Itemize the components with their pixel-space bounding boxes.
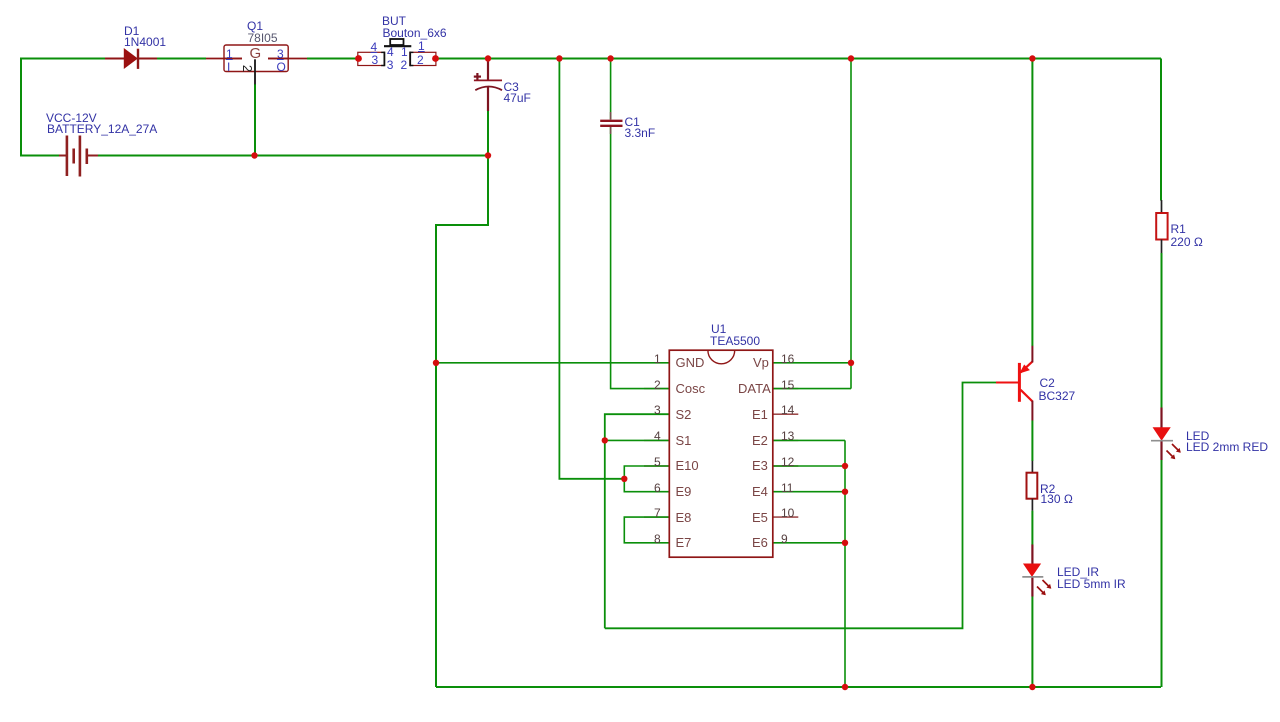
regulator Q1 pin texts bbox=[226, 48, 233, 60]
junction top bus / C1 bbox=[607, 55, 613, 61]
wire R2 to LED_IR bbox=[1031, 511, 1033, 545]
U1 pin 4 bbox=[644, 439, 669, 441]
wire S2 net bbox=[605, 414, 670, 628]
U1 pin 12 bbox=[773, 465, 799, 467]
wire LED to bottom bus bbox=[1161, 460, 1163, 687]
junction top bus / Vp branch bbox=[848, 55, 854, 61]
wire Vp net bbox=[773, 362, 851, 364]
junction E3 net bbox=[842, 463, 848, 469]
U1 pin name E3 bbox=[752, 459, 768, 472]
junction bottom bus / E group bbox=[842, 684, 848, 690]
resistor R2 labels bbox=[1040, 483, 1055, 495]
pushbutton pin numbers bbox=[371, 41, 378, 53]
junction E6 net bbox=[842, 540, 848, 546]
wire BUT to top-right corner bbox=[435, 58, 1161, 60]
wire E8-E7 loop bbox=[624, 517, 669, 543]
pushbutton BUT labels bbox=[382, 15, 406, 27]
U1 pin number 12 bbox=[781, 456, 794, 468]
wire E10-E9 loop bbox=[624, 466, 669, 492]
wire GND net to U1 pin1 bbox=[436, 362, 669, 364]
U1 pin 13 bbox=[773, 439, 799, 441]
wire C3 junction down to corner bbox=[436, 156, 488, 687]
wire E group vertical to bottom bus bbox=[844, 440, 846, 687]
U1 pin 16 bbox=[773, 362, 799, 364]
LED_IR 5mm bbox=[1022, 545, 1051, 597]
wire battery row right to C3 bbox=[97, 155, 488, 157]
U1 pin 14 bbox=[773, 413, 799, 415]
junction GND net bbox=[433, 360, 439, 366]
IC U1 labels bbox=[711, 323, 726, 335]
wire Q1 GND down green part bbox=[254, 84, 256, 156]
capacitor C1 labels bbox=[625, 116, 640, 128]
resistor R2 130 bbox=[1027, 461, 1038, 511]
junction BUT pin 3 bbox=[355, 55, 362, 62]
diode D1 labels bbox=[124, 25, 139, 37]
junction BUT pin 2 bbox=[432, 55, 439, 62]
junction Vp net bbox=[848, 360, 854, 366]
wire E2 net bbox=[773, 439, 845, 441]
U1 pin 1 bbox=[644, 362, 669, 364]
U1 pin name E1 bbox=[752, 408, 768, 421]
wire E3 net bbox=[773, 465, 845, 467]
wire right branch top bbox=[1160, 59, 1162, 201]
IC U1 left pin stubs bbox=[644, 363, 669, 543]
wire Q1 to BUT bbox=[307, 58, 359, 60]
LED_IR labels bbox=[1057, 566, 1099, 578]
wire C3 bottom bbox=[487, 110, 489, 156]
junction top bus / C2 collector branch bbox=[1029, 55, 1035, 61]
wire transistor collector top to bus bbox=[1031, 59, 1033, 347]
U1 pin number 14 bbox=[781, 404, 794, 416]
regulator Q1 labels bbox=[247, 20, 263, 32]
U1 pin number 4 bbox=[654, 430, 661, 442]
junction top bus / C3 bbox=[485, 55, 491, 61]
U1 pin number 7 bbox=[654, 507, 661, 519]
U1 pin name E5 bbox=[752, 511, 768, 524]
wire DATA net bbox=[773, 388, 851, 390]
U1 pin 9 bbox=[773, 542, 799, 544]
U1 pin number 9 bbox=[781, 533, 788, 545]
U1 pin 8 bbox=[644, 542, 669, 544]
U1 pin name E2 bbox=[752, 434, 768, 447]
LED labels bbox=[1186, 430, 1209, 442]
U1 pin number 6 bbox=[654, 482, 661, 494]
pushbutton BUT Bouton_6x6 bbox=[358, 39, 436, 66]
U1 pin name E6 bbox=[752, 536, 768, 549]
wire C1 bottom to U1 pin2 Cosc bbox=[611, 127, 670, 389]
wire left vertical from bus to battery bbox=[20, 58, 22, 156]
U1 pin name E8 bbox=[676, 511, 692, 524]
U1 pin number 15 bbox=[781, 379, 794, 391]
IC U1 TEA5500 body bbox=[669, 350, 773, 557]
wire E4 net bbox=[773, 491, 845, 493]
U1 pin number 16 bbox=[781, 353, 794, 365]
capacitor C3 labels bbox=[504, 81, 519, 93]
U1 pin name S1 bbox=[676, 434, 692, 447]
battery labels bbox=[46, 112, 97, 124]
resistor R1 labels bbox=[1171, 223, 1186, 235]
U1 pin 2 bbox=[644, 388, 669, 390]
U1 pin name S2 bbox=[676, 408, 692, 421]
junction E4 net bbox=[842, 489, 848, 495]
wire bottom bus bbox=[436, 686, 1161, 688]
U1 pin number 13 bbox=[781, 430, 794, 442]
wire transistor emitter to R2 bbox=[1031, 421, 1033, 462]
U1 pin number 11 bbox=[781, 482, 793, 494]
transistor C2 BC327 bbox=[996, 346, 1032, 421]
wire D1 to Q1 bbox=[157, 58, 206, 60]
U1 pin number 5 bbox=[654, 456, 661, 468]
U1 pin name DATA bbox=[738, 382, 771, 395]
U1 pin name E4 bbox=[752, 485, 768, 498]
U1 pin number 8 bbox=[654, 533, 661, 545]
U1 pin name GND bbox=[676, 356, 705, 369]
regulator Q1 78I05 bbox=[206, 45, 307, 84]
U1 pin 10 bbox=[773, 516, 799, 518]
wire base net bottom horizontal to transistor bbox=[605, 383, 996, 629]
U1 pin name Vp bbox=[753, 356, 769, 369]
wire R1 to LED bbox=[1161, 253, 1163, 408]
wire Vp-DATA vertical to top bus bbox=[850, 59, 852, 389]
battery VCC-12V bbox=[59, 136, 98, 177]
U1 pin number 1 bbox=[654, 353, 661, 365]
junction top bus / E10-E9 branch bbox=[556, 55, 562, 61]
LED 2mm RED bbox=[1151, 408, 1181, 461]
U1 pin name E10 bbox=[676, 459, 699, 472]
wire VCC vertical x559 to E10 junction bbox=[559, 59, 624, 479]
junction battery wire / Q1 GND bbox=[251, 152, 257, 158]
junction E10/E9 net bbox=[621, 476, 627, 482]
U1 pin 7 bbox=[644, 516, 669, 518]
wire battery row left bbox=[20, 155, 59, 157]
U1 pin name E9 bbox=[676, 485, 692, 498]
junction bottom bus / LED_IR branch bbox=[1029, 684, 1035, 690]
diode D1 bbox=[105, 49, 157, 69]
U1 pin number 10 bbox=[781, 507, 794, 519]
capacitor C1 3.3nF bbox=[600, 112, 622, 134]
junction battery wire / C3 bottom bbox=[485, 152, 491, 158]
U1 pin 6 bbox=[644, 491, 669, 493]
transistor C2 labels bbox=[1040, 377, 1055, 389]
U1 pin name E7 bbox=[676, 536, 692, 549]
wire E6 net bbox=[773, 542, 845, 544]
capacitor C3 47uF polarized bbox=[474, 58, 502, 112]
U1 pin number 3 bbox=[654, 404, 661, 416]
wire top bus left segment bbox=[20, 58, 105, 60]
wire LED_IR to bottom bus bbox=[1031, 597, 1033, 688]
U1 pin 3 bbox=[644, 413, 669, 415]
U1 pin 11 bbox=[773, 491, 799, 493]
U1 pin name Cosc bbox=[676, 382, 706, 395]
resistor R1 220 bbox=[1156, 200, 1167, 253]
U1 pin number 2 bbox=[654, 379, 661, 391]
wire S1 to S2 vertical bbox=[605, 439, 670, 441]
wire C1 top bbox=[610, 59, 612, 120]
U1 pin 5 bbox=[644, 465, 669, 467]
IC U1 right pin stubs bbox=[773, 363, 799, 543]
junction S1/S2 net bbox=[602, 437, 608, 443]
U1 pin 15 bbox=[773, 388, 799, 390]
